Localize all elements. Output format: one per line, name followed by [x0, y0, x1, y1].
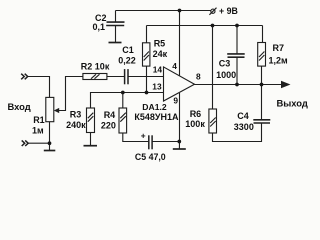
wire R1 wiper shaft: [58, 77, 83, 111]
svg-text:3300: 3300: [234, 122, 254, 132]
wiper arrow R1: [54, 108, 59, 113]
capacitor C2 stem top: [115, 11, 117, 22]
svg-text:24к: 24к: [153, 49, 168, 59]
wire C2 to ground: [115, 26, 117, 43]
wire R6 bottom to C4 bottom: [213, 123, 262, 142]
svg-text:1000: 1000: [216, 70, 236, 80]
wire R5 bottom stem: [146, 66, 148, 92]
wire junction to ground: [49, 143, 51, 150]
wire +9V rail: [116, 10, 211, 12]
svg-text:C5 47,0: C5 47,0: [135, 152, 166, 162]
svg-text:+ 9В: + 9В: [219, 6, 238, 16]
svg-text:8: 8: [196, 72, 201, 82]
svg-text:R5: R5: [154, 39, 166, 49]
svg-text:C3: C3: [219, 59, 231, 69]
resistor R3: [87, 108, 95, 133]
svg-text:R7: R7: [273, 43, 285, 53]
capacitor C4: [253, 120, 270, 123]
svg-text:R4: R4: [104, 110, 116, 120]
wire R3 to ground: [90, 133, 92, 146]
svg-text:+: +: [141, 131, 146, 141]
wire output pin 8: [195, 84, 283, 86]
svg-text:1,2м: 1,2м: [269, 56, 289, 66]
svg-text:9: 9: [173, 95, 178, 105]
ground (C5 / pin9): [173, 148, 186, 150]
node input top chevron: [21, 74, 28, 80]
resistor R4: [119, 108, 127, 133]
wire R6 top stem: [212, 26, 214, 110]
junction R7-C4 / output line: [260, 83, 264, 87]
resistor R1: [46, 97, 54, 121]
svg-text:0,22: 0,22: [118, 55, 136, 65]
ground (R3): [84, 145, 98, 147]
wire R2 to C1: [107, 76, 124, 78]
svg-text:DA1.2: DA1.2: [142, 102, 167, 112]
resistor R2: [83, 74, 107, 80]
wire pin 4 stem: [179, 11, 181, 76]
svg-text:R1: R1: [33, 115, 45, 125]
wire junction to ground (C5): [178, 142, 180, 149]
svg-text:R3: R3: [70, 110, 82, 120]
svg-text:13: 13: [152, 82, 162, 92]
svg-text:C1: C1: [122, 45, 134, 55]
wire pin 9 stem: [179, 93, 181, 142]
resistor R7: [258, 43, 266, 67]
power terminal +9V: [209, 8, 216, 15]
svg-text:Выход: Выход: [277, 98, 308, 109]
wire pin 13 line: [91, 93, 164, 109]
ground (C2): [109, 42, 122, 44]
svg-text:1м: 1м: [32, 125, 44, 135]
svg-text:R6: R6: [190, 109, 202, 119]
wire R7 top stem: [262, 26, 264, 43]
wire C4 top stem: [261, 85, 263, 120]
capacitor C1: [125, 69, 128, 84]
capacitor C3: [227, 54, 245, 57]
junction C3 / output line: [235, 83, 239, 87]
svg-text:Вход: Вход: [8, 101, 31, 112]
output arrow: [281, 81, 291, 88]
junction pin4 / +9V rail: [178, 9, 182, 13]
svg-text:220: 220: [101, 120, 116, 130]
op-amp DA1.2: [164, 67, 195, 101]
svg-text:R2 10к: R2 10к: [81, 61, 110, 71]
wire C5 to junction: [152, 141, 179, 143]
capacitor C2: [106, 22, 124, 25]
svg-text:100к: 100к: [185, 119, 205, 129]
svg-text:C4: C4: [237, 111, 249, 121]
junction R1 bottom / input ground: [48, 141, 52, 145]
svg-text:14: 14: [153, 64, 163, 74]
wire R5 top stem: [146, 26, 148, 43]
junction R4 / pin13 line: [121, 91, 125, 95]
wire R1 bottom: [49, 122, 51, 144]
svg-text:0,1: 0,1: [93, 22, 106, 32]
ground (input): [44, 150, 56, 152]
wire R4 top stem: [122, 93, 124, 109]
wire C1 to pin 14: [128, 76, 163, 78]
resistor R5: [143, 43, 150, 66]
svg-text:240к: 240к: [66, 120, 86, 130]
node input bottom chevron: [22, 140, 29, 146]
wire R4 bottom to C5: [123, 133, 149, 142]
wire C3 bottom stem: [236, 57, 238, 84]
junction C5 / pin9 / ground: [177, 140, 181, 144]
capacitor C5: [149, 135, 152, 149]
svg-text:К548УН1А: К548УН1А: [134, 112, 179, 122]
svg-text:4: 4: [172, 61, 177, 71]
resistor R6: [209, 109, 217, 133]
wire R7 bottom stem: [261, 66, 263, 84]
wire bottom chevron to junction: [28, 142, 49, 144]
wire feedback line: [147, 25, 263, 27]
junction R6 / feedback line: [211, 24, 215, 28]
junction R5 / pin13 line: [145, 91, 149, 95]
wire input to R1 top: [28, 77, 50, 98]
wire C3 top stem: [236, 26, 238, 54]
junction C3 / feedback line: [235, 24, 239, 28]
